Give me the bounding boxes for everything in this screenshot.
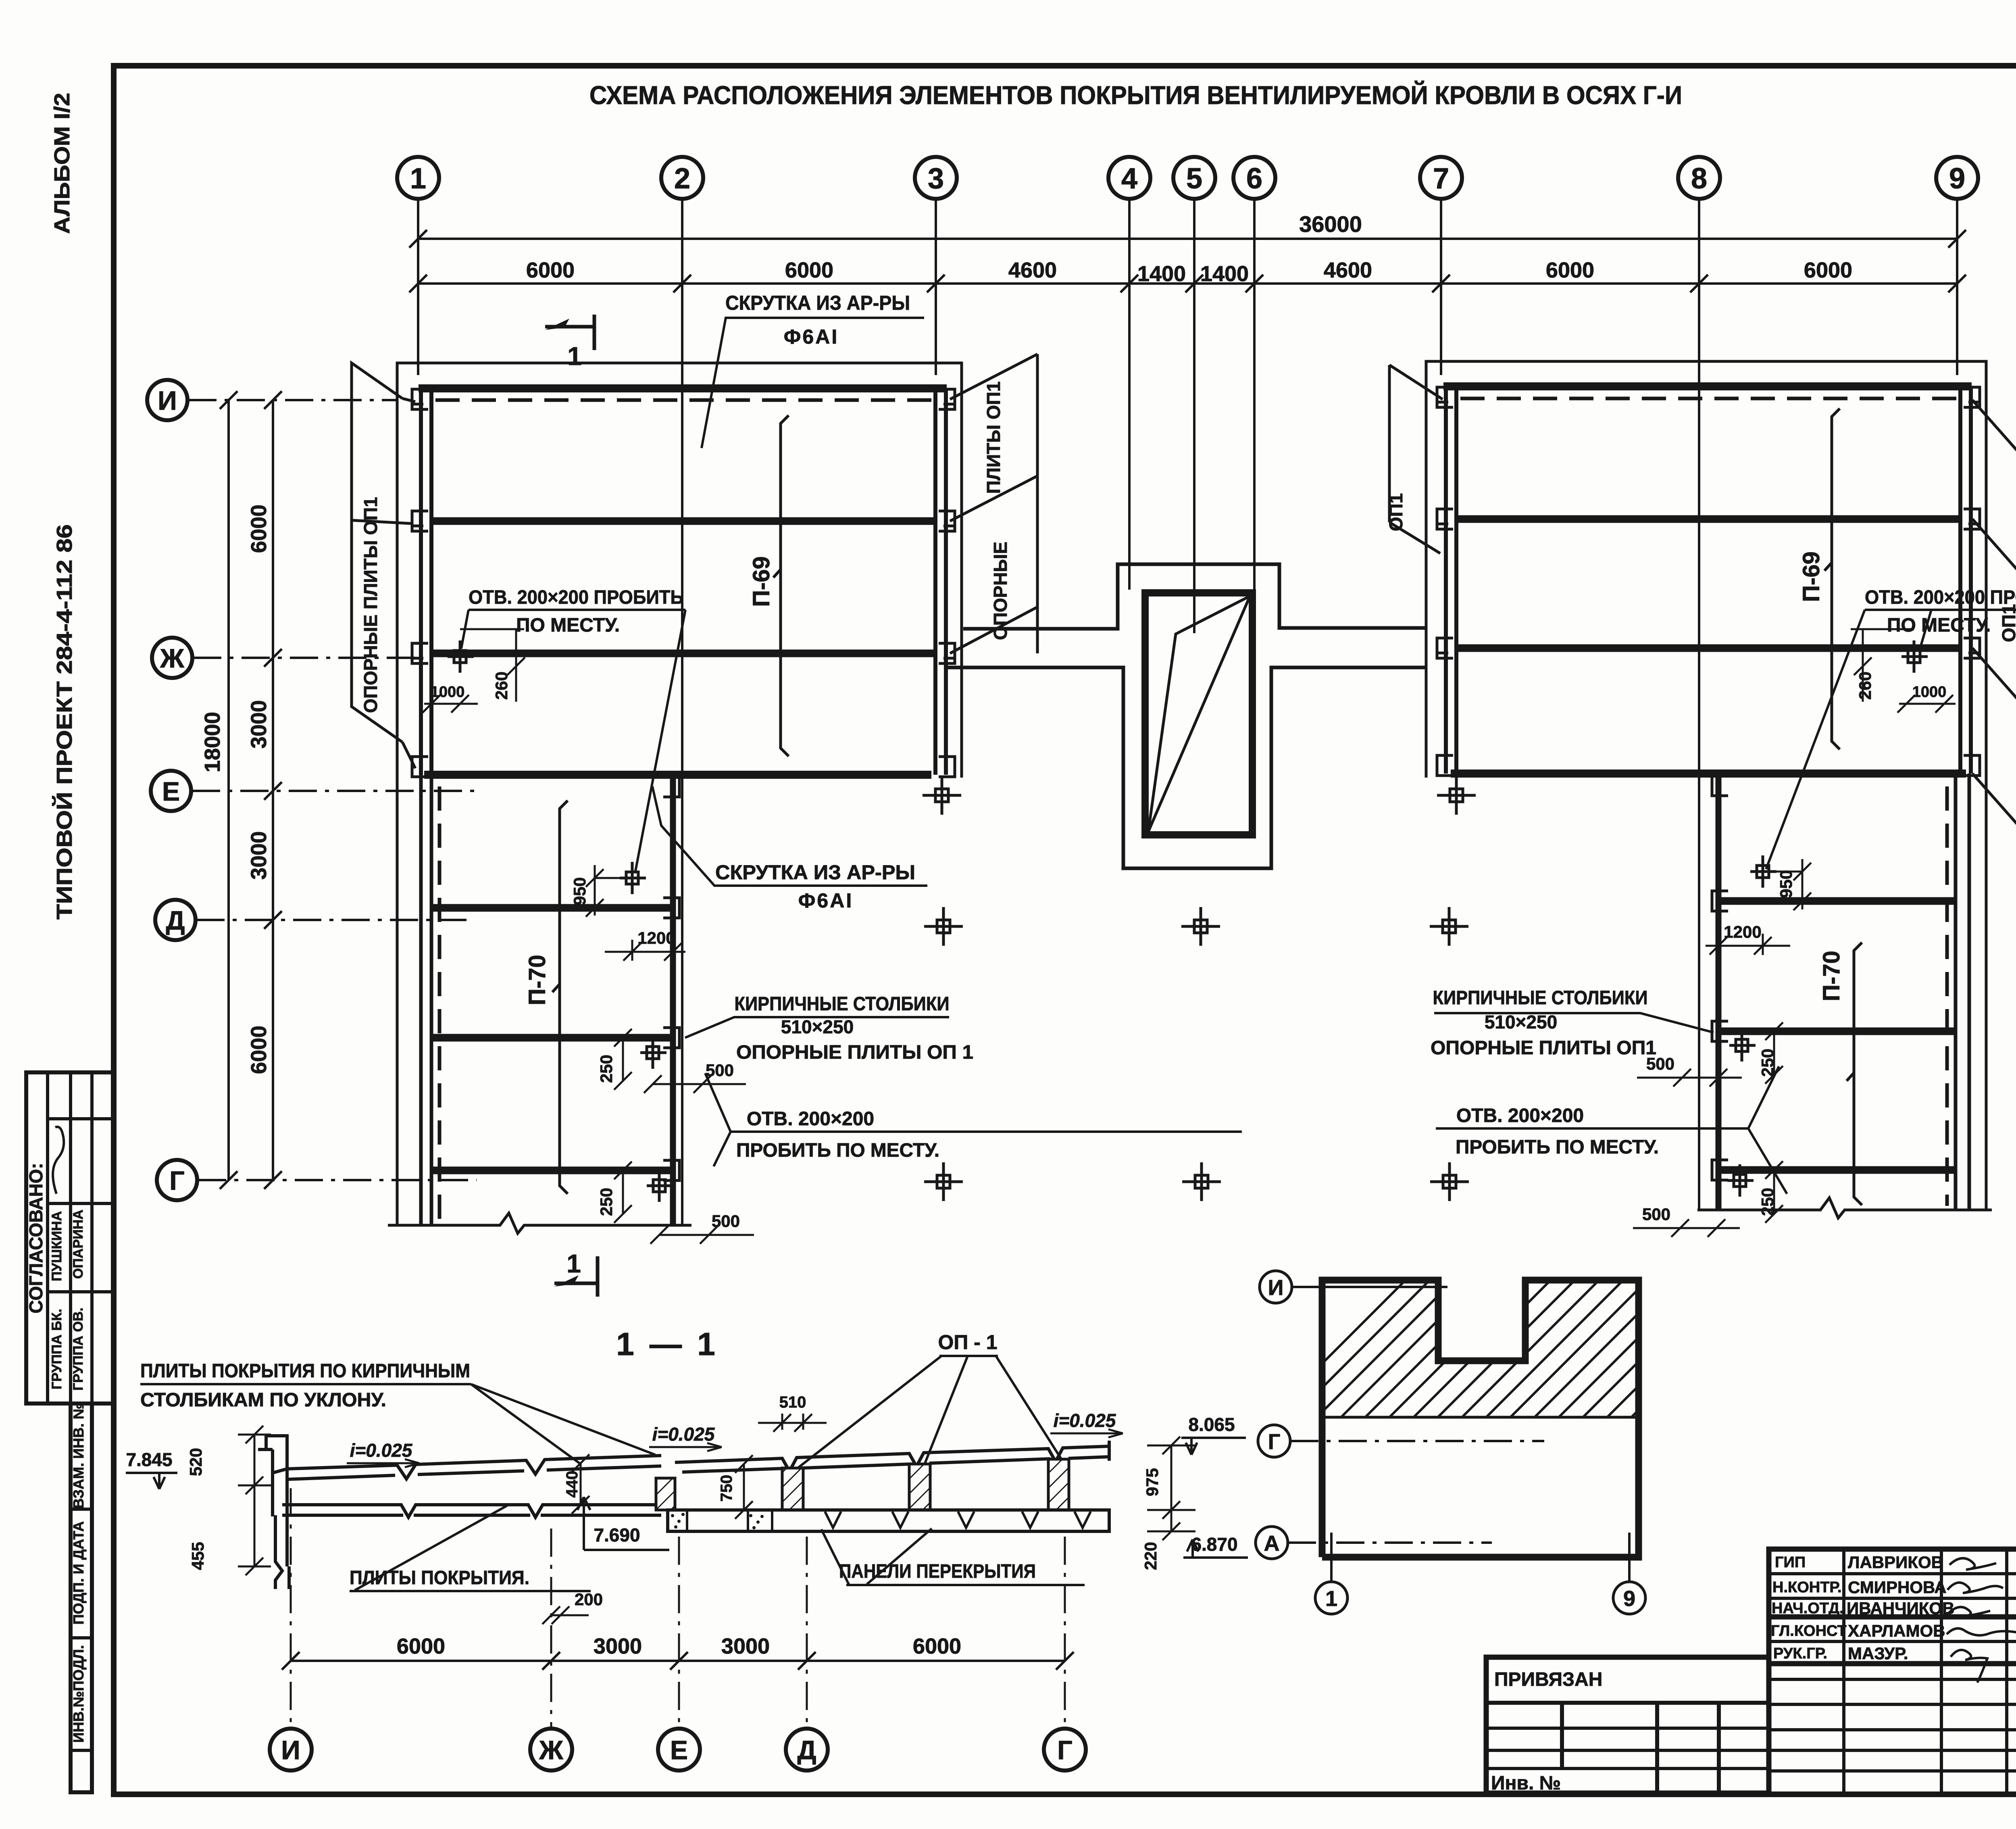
svg-text:6000: 6000	[785, 258, 833, 282]
svg-text:ОТВ. 200×200 ПРОБИТЬ: ОТВ. 200×200 ПРОБИТЬ	[1865, 587, 2016, 608]
lower-left wall double	[419, 775, 423, 1225]
svg-text:3000: 3000	[721, 1634, 770, 1658]
svg-text:ОП1: ОП1	[1385, 493, 1406, 531]
svg-text:4600: 4600	[1324, 258, 1372, 282]
axis 9 circle	[1936, 157, 1978, 199]
svg-text:260: 260	[1856, 672, 1874, 700]
wall below left section	[275, 1515, 289, 1589]
left building bottom wall thick	[424, 771, 931, 779]
svg-text:6000: 6000	[397, 1634, 445, 1658]
axis 2 circle	[661, 157, 703, 199]
svg-text:Е: Е	[670, 1735, 688, 1765]
lower-right inner dashed line	[1945, 786, 1949, 1206]
svg-text:ГРУППА ОВ.: ГРУППА ОВ.	[71, 1308, 86, 1391]
lower-right right wall double	[1954, 774, 1958, 1210]
svg-text:СТОЛБИКАМ ПО УКЛОНУ.: СТОЛБИКАМ ПО УКЛОНУ.	[140, 1389, 386, 1411]
svg-text:ПО МЕСТУ.: ПО МЕСТУ.	[1887, 615, 1991, 636]
signatures squiggles	[1947, 1558, 2016, 1683]
section bottom dim line	[282, 1652, 1074, 1670]
Скрутка lower underline and leader	[652, 786, 927, 886]
lower-right left wall thick	[1716, 774, 1722, 1210]
svg-text:1200: 1200	[1724, 922, 1761, 941]
Кирпичные столбики underline/leader left	[685, 1017, 949, 1038]
svg-text:200: 200	[575, 1590, 603, 1609]
svg-text:ПЛИТЫ ОП1: ПЛИТЫ ОП1	[983, 382, 1004, 494]
lower-right plate line 3	[1718, 1166, 1956, 1174]
svg-text:Г: Г	[169, 1166, 184, 1195]
plate joint line П-69 lower	[431, 650, 935, 657]
title block texts left column	[1771, 1554, 1847, 1662]
segment dim texts	[526, 258, 1852, 286]
svg-text:6000: 6000	[913, 1634, 961, 1658]
vertical dividers	[1842, 1549, 1845, 1794]
svg-text:ОПОРНЫЕ ПЛИТЫ ОП 1: ОПОРНЫЕ ПЛИТЫ ОП 1	[736, 1042, 973, 1063]
Отв lower-right underline and fork leaders	[1436, 1066, 1787, 1194]
svg-text:8: 8	[1691, 163, 1707, 195]
hatched support columns ОП-1	[656, 1459, 1069, 1510]
lower flat slab band with V joints	[282, 1505, 661, 1517]
lower-left plate line 3	[431, 1167, 673, 1174]
dim 500 mid	[644, 1075, 746, 1093]
svg-text:ОПОРНЫЕ ПЛИТЫ ОП1: ОПОРНЫЕ ПЛИТЫ ОП1	[1431, 1037, 1656, 1059]
right building top wall thick	[1443, 382, 1972, 390]
svg-text:250: 250	[1758, 1188, 1777, 1216]
svg-text:ПАНЕЛИ ПЕРЕКРЫТИЯ: ПАНЕЛИ ПЕРЕКРЫТИЯ	[839, 1561, 1036, 1582]
margin signature squiggle	[53, 1127, 64, 1194]
svg-text:440: 440	[563, 1471, 581, 1498]
axis 8 circle	[1678, 157, 1720, 199]
svg-text:АЛЬБОМ I/2: АЛЬБОМ I/2	[50, 93, 74, 234]
Отв hole square upper-left with cross	[448, 640, 474, 673]
svg-text:455: 455	[188, 1542, 207, 1570]
П-70 reference bracket left	[552, 801, 568, 1194]
И axis dashed line inside building	[435, 398, 932, 402]
svg-text:П-69: П-69	[748, 556, 775, 607]
right building bottom wall thick	[1451, 770, 1966, 778]
svg-text:П-70: П-70	[1818, 951, 1845, 1001]
dim 950 lower-right	[1774, 859, 1811, 910]
dim 500 bottom right	[1633, 1219, 1740, 1237]
svg-text:ХАРЛАМОВ: ХАРЛАМОВ	[1848, 1621, 1945, 1640]
key plan hatching	[1250, 1234, 1814, 1436]
svg-text:Г: Г	[1057, 1735, 1072, 1765]
svg-text:6000: 6000	[526, 258, 575, 282]
right building left wall double	[1444, 386, 1448, 774]
floor panel band Е-Г	[668, 1510, 1109, 1531]
svg-text:ОПОРНЫЕ: ОПОРНЫЕ	[990, 542, 1011, 640]
svg-text:510×250: 510×250	[1485, 1011, 1557, 1032]
brackets on lower-left right wall	[663, 777, 679, 1180]
support plate bracket marks on walls	[411, 389, 956, 777]
dim 950 lower-left	[586, 865, 623, 917]
axis 6 circle	[1233, 157, 1275, 199]
key plan axis leaders	[1288, 1287, 1629, 1581]
svg-text:Ф6АI: Ф6АI	[784, 325, 839, 348]
key plan circles	[1256, 1271, 1645, 1614]
shaft upper outline	[946, 564, 1427, 868]
svg-text:6000: 6000	[247, 1026, 271, 1074]
Отв hole square upper-right with cross	[1901, 640, 1928, 673]
svg-text:1: 1	[1325, 1587, 1337, 1611]
svg-text:3000: 3000	[594, 1634, 642, 1658]
svg-text:1000: 1000	[431, 684, 465, 701]
svg-text:6000: 6000	[1546, 258, 1594, 282]
svg-text:Г: Г	[1268, 1430, 1281, 1454]
svg-text:ПРОБИТЬ ПО МЕСТУ.: ПРОБИТЬ ПО МЕСТУ.	[1456, 1137, 1659, 1158]
svg-text:Ж: Ж	[160, 643, 184, 673]
svg-text:6.870: 6.870	[1191, 1534, 1237, 1555]
svg-text:950: 950	[1776, 870, 1795, 898]
lower-right plate line 1	[1718, 897, 1956, 905]
svg-text:4: 4	[1121, 163, 1137, 195]
svg-text:750: 750	[718, 1475, 735, 1502]
axis Г circle	[157, 1160, 197, 1200]
axis Д circle	[155, 900, 196, 940]
section axis dash-dot verticals	[291, 1488, 1065, 1728]
dim 260 at upper-right hole	[1851, 629, 1914, 702]
lower-left right wall thick	[670, 775, 676, 1225]
svg-text:5: 5	[1186, 163, 1202, 195]
svg-text:510×250: 510×250	[781, 1016, 854, 1037]
segment dimension line	[409, 275, 1966, 292]
svg-text:250: 250	[597, 1188, 616, 1216]
svg-text:510: 510	[779, 1393, 806, 1411]
svg-text:РУК.ГР.: РУК.ГР.	[1773, 1645, 1827, 1662]
dim 1000 at upper-left hole	[423, 695, 478, 713]
lower-right plate line 2	[1718, 1028, 1956, 1035]
svg-text:1: 1	[410, 163, 426, 195]
overall dimension line 36000	[409, 230, 1966, 248]
axis extension lines	[418, 199, 1957, 1226]
svg-text:И: И	[158, 386, 177, 415]
svg-text:Ф6АI: Ф6АI	[798, 889, 853, 912]
750 dim	[735, 1455, 753, 1519]
svg-text:И: И	[1268, 1276, 1284, 1300]
svg-text:3000: 3000	[247, 700, 271, 749]
svg-text:Н.КОНТР.: Н.КОНТР.	[1772, 1579, 1842, 1596]
axis И circle	[147, 380, 187, 420]
svg-text:500: 500	[712, 1212, 740, 1230]
П-69 reference bracket left	[773, 415, 789, 756]
svg-text:220: 220	[1141, 1542, 1160, 1570]
right-side callout of left building	[950, 354, 1037, 653]
svg-text:9: 9	[1949, 163, 1965, 195]
svg-text:ОТВ. 200×200 ПРОБИТЬ: ОТВ. 200×200 ПРОБИТЬ	[469, 587, 683, 608]
key plan outline	[1322, 1280, 1639, 1557]
svg-text:6000: 6000	[247, 505, 271, 553]
И axis dashed line inside right building	[1460, 397, 1957, 400]
lower-right bottom edge with break	[1697, 1198, 1992, 1218]
lower-left plate line 2	[431, 1034, 673, 1042]
lower-left inner dashed line	[438, 786, 442, 1222]
Отв lower-left underline and fork leaders	[705, 1073, 1242, 1166]
svg-text:4600: 4600	[1008, 258, 1057, 282]
axis Ж circle	[152, 638, 192, 678]
svg-text:1: 1	[566, 1249, 581, 1278]
svg-text:НАЧ.ОТД.: НАЧ.ОТД.	[1772, 1600, 1844, 1617]
svg-text:ПЛИТЫ ПОКРЫТИЯ ПО КИРПИЧНЫМ: ПЛИТЫ ПОКРЫТИЯ ПО КИРПИЧНЫМ	[140, 1360, 470, 1382]
svg-text:950: 950	[570, 877, 589, 905]
svg-text:260: 260	[492, 672, 511, 700]
plate joint line П-69 upper	[431, 517, 935, 525]
lower-right outer thin wall	[1985, 778, 1988, 1210]
ОП1 callout right side of right building	[1972, 400, 2016, 836]
horizontal rows left part	[1769, 1572, 2016, 1575]
shaft diagonal flag	[1148, 596, 1250, 832]
underline and leaders	[140, 1384, 655, 1464]
svg-text:7.690: 7.690	[594, 1525, 640, 1545]
stipple cells in panel band	[671, 1513, 764, 1529]
left dim bracket 520/455	[238, 1426, 271, 1575]
П-70 reference bracket right	[1847, 943, 1862, 1205]
svg-text:6000: 6000	[1804, 258, 1852, 282]
svg-text:Е: Е	[162, 776, 180, 806]
svg-text:ОП1: ОП1	[1998, 604, 2016, 642]
svg-text:1 — 1: 1 — 1	[616, 1326, 718, 1362]
left axis dash-dot leader lines	[188, 400, 477, 1180]
svg-text:36000: 36000	[1299, 211, 1362, 237]
left building right wall double	[933, 388, 937, 775]
svg-text:3: 3	[928, 163, 944, 195]
svg-text:ВЗАМ. ИНВ. №: ВЗАМ. ИНВ. №	[70, 1403, 87, 1509]
right roof band above columns	[675, 1441, 1109, 1472]
dim 500 bottom	[650, 1226, 754, 1244]
axis 1 circle	[397, 157, 439, 199]
svg-text:1000: 1000	[1912, 684, 1947, 701]
svg-text:i=0.025: i=0.025	[350, 1440, 413, 1461]
svg-text:ПРИВЯЗАН: ПРИВЯЗАН	[1494, 1669, 1602, 1690]
svg-text:ОТВ. 200×200: ОТВ. 200×200	[747, 1108, 874, 1130]
key plan hatch boundary	[1322, 1416, 1639, 1419]
hole square bottom (lower-left)	[647, 1170, 673, 1202]
plate joint line lower right bldg	[1456, 644, 1960, 652]
svg-text:500: 500	[1642, 1205, 1670, 1224]
axis Е circle	[151, 771, 191, 811]
dim 260 at upper-left hole	[460, 629, 525, 702]
svg-text:И: И	[281, 1735, 300, 1765]
svg-text:ОТВ. 200×200: ОТВ. 200×200	[1456, 1105, 1584, 1126]
svg-text:П-69: П-69	[1798, 551, 1824, 602]
title block outer	[1769, 1549, 2016, 1794]
svg-text:ОПОРНЫЕ ПЛИТЫ ОП1: ОПОРНЫЕ ПЛИТЫ ОП1	[360, 497, 381, 713]
panel V marks	[825, 1512, 1091, 1528]
left building outer thin outline	[397, 363, 962, 778]
svg-text:ПО МЕСТУ.: ПО МЕСТУ.	[516, 615, 620, 636]
dim 1000 at upper-right hole	[1897, 695, 1956, 713]
svg-text:КИРПИЧНЫЕ СТОЛБИКИ: КИРПИЧНЫЕ СТОЛБИКИ	[735, 993, 950, 1015]
svg-text:250: 250	[1758, 1049, 1777, 1077]
axis 4 circle	[1108, 157, 1150, 199]
svg-text:7: 7	[1433, 163, 1449, 195]
dim 250 bottom	[614, 1162, 632, 1223]
svg-text:СКРУТКА ИЗ АР-РЫ: СКРУТКА ИЗ АР-РЫ	[715, 861, 915, 884]
plate joint line upper right bldg	[1456, 515, 1960, 523]
svg-text:Д: Д	[797, 1735, 816, 1765]
shaft inner thick rect	[1145, 593, 1252, 835]
Отв upper-left underline and leaders	[461, 610, 685, 873]
right building right wall double	[1958, 386, 1962, 774]
Скрутка top underline and leader	[702, 318, 924, 448]
svg-text:Д: Д	[166, 905, 185, 935]
svg-text:ОПАРИНА: ОПАРИНА	[71, 1210, 86, 1279]
svg-text:1: 1	[567, 342, 582, 371]
svg-text:ПРОБИТЬ ПО МЕСТУ.: ПРОБИТЬ ПО МЕСТУ.	[736, 1140, 939, 1161]
axis 7 circle	[1420, 157, 1462, 199]
svg-text:Инв. №: Инв. №	[1491, 1773, 1561, 1794]
svg-text:СХЕМА РАСПОЛОЖЕНИЯ ЭЛЕМЕНТОВ: СХЕМА РАСПОЛОЖЕНИЯ ЭЛЕМЕНТОВ ПОКРЫТИЯ ВЕ…	[589, 80, 1682, 110]
svg-text:6: 6	[1246, 163, 1262, 195]
axis 5 circle	[1173, 157, 1215, 199]
brackets on lower-right left wall	[1712, 776, 1728, 1180]
svg-text:1400: 1400	[1200, 262, 1249, 286]
svg-text:СМИРНОВА: СМИРНОВА	[1848, 1578, 1947, 1597]
svg-text:Ж: Ж	[539, 1735, 563, 1765]
hole square mid (lower-left)	[640, 1037, 666, 1069]
svg-text:250: 250	[597, 1055, 616, 1083]
hole square at 950 dim (lower-left)	[620, 862, 646, 894]
svg-text:ГРУППА БК.: ГРУППА БК.	[49, 1309, 65, 1389]
svg-text:ЛАВРИКОВ: ЛАВРИКОВ	[1848, 1553, 1943, 1572]
svg-text:ГИП: ГИП	[1775, 1554, 1806, 1571]
dim 500 mid right	[1637, 1069, 1742, 1087]
lower-left bottom edge with break	[388, 1213, 691, 1233]
svg-text:ОП - 1: ОП - 1	[938, 1331, 997, 1354]
support plate bracket marks right building	[1436, 387, 1981, 776]
svg-text:П-70: П-70	[524, 955, 550, 1005]
Отв upper-right underline and leaders	[1766, 610, 2016, 869]
svg-text:ИВАНЧИКОВ: ИВАНЧИКОВ	[1847, 1599, 1954, 1618]
dim 250 bottom right	[1765, 1161, 1783, 1223]
left building top wall thick	[419, 384, 947, 392]
lower-left outer thin wall	[396, 775, 399, 1225]
svg-text:ПОДП. И ДАТА: ПОДП. И ДАТА	[70, 1521, 87, 1625]
svg-text:i=0.025: i=0.025	[652, 1424, 715, 1445]
section mark 1 top	[545, 315, 594, 350]
svg-text:КИРПИЧНЫЕ СТОЛБИКИ: КИРПИЧНЫЕ СТОЛБИКИ	[1433, 987, 1648, 1009]
svg-text:1400: 1400	[1137, 262, 1186, 286]
svg-text:МАЗУР.: МАЗУР.	[1848, 1644, 1908, 1663]
dim 1200 lower-right	[1706, 934, 1790, 955]
svg-text:520: 520	[186, 1448, 205, 1476]
svg-text:ГЛ.КОНСТ: ГЛ.КОНСТ	[1771, 1623, 1847, 1639]
Кирпичные столбики underline/leader right	[1434, 1013, 1714, 1032]
Опорные плиты ОП1 callout left side	[352, 363, 415, 768]
svg-text:А: А	[1264, 1531, 1280, 1556]
440 dim	[572, 1454, 589, 1514]
left building left wall double	[419, 388, 423, 775]
section axis circles	[270, 1729, 1086, 1771]
axis 3 circle	[915, 157, 957, 199]
svg-text:18000: 18000	[200, 712, 225, 772]
svg-text:7.845: 7.845	[126, 1449, 172, 1470]
svg-text:500: 500	[706, 1061, 734, 1080]
hole square mid (lower-right)	[1729, 1029, 1756, 1062]
svg-text:СОГЛАСОВАНО:: СОГЛАСОВАНО:	[25, 1163, 46, 1313]
lower-left plate line 1	[431, 904, 673, 912]
right building outer thin outline	[1426, 361, 1986, 778]
dim 250 mid right	[1765, 1022, 1783, 1084]
left parapet wall of section	[258, 1436, 287, 1566]
svg-text:2: 2	[674, 163, 690, 195]
svg-text:ПУШКИНА: ПУШКИНА	[49, 1211, 65, 1281]
right side dims 975/220	[1147, 1437, 1195, 1540]
svg-text:i=0.025: i=0.025	[1054, 1410, 1116, 1431]
svg-text:975: 975	[1143, 1468, 1162, 1496]
hole square at 950 dim (lower-right)	[1750, 855, 1776, 888]
ОП1 callout left side of right building	[1389, 365, 1443, 553]
svg-text:8.065: 8.065	[1188, 1414, 1235, 1435]
section mark 1 bottom	[554, 1256, 598, 1297]
svg-text:СКРУТКА ИЗ АР-РЫ: СКРУТКА ИЗ АР-РЫ	[725, 292, 910, 314]
hole square bottom (lower-right)	[1727, 1164, 1754, 1197]
П-69 reference bracket right	[1824, 409, 1840, 749]
svg-text:1200: 1200	[637, 928, 675, 947]
svg-text:3000: 3000	[247, 831, 271, 880]
upper roof slab band (И-Е) with V joints	[273, 1456, 661, 1479]
left vertical dimension lines	[220, 391, 282, 1189]
dim 1200 lower-left	[605, 940, 685, 961]
svg-text:ТИПОВОЙ ПРОЕКТ 284-4-112 86: ТИПОВОЙ ПРОЕКТ 284-4-112 86	[52, 524, 77, 920]
svg-text:ИНВ.№ПОДЛ.: ИНВ.№ПОДЛ.	[70, 1645, 87, 1743]
dim 250 mid	[614, 1029, 632, 1090]
svg-text:9: 9	[1623, 1587, 1635, 1611]
